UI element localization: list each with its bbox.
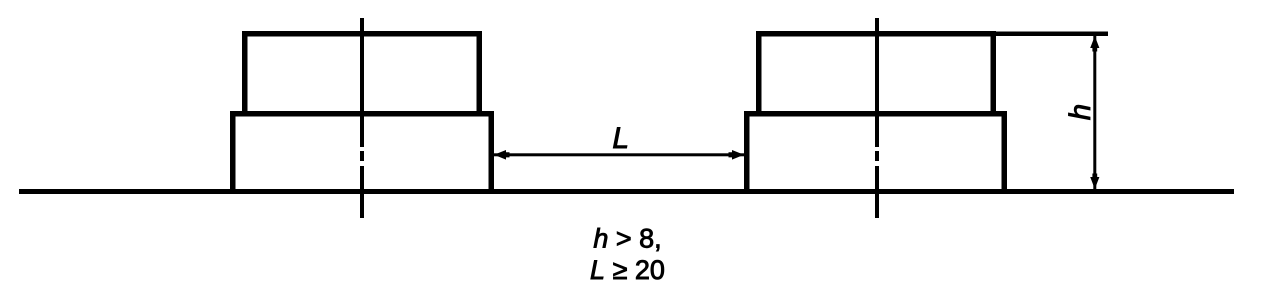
svg-text:h > 8,: h > 8, [593,224,661,254]
left component centerline [360,18,364,218]
dimension h bottom arrowhead [1090,174,1099,190]
dimension L line [494,153,744,156]
right component upper body [756,31,996,116]
dimension h line [1093,36,1096,189]
right component lower body [744,111,1007,194]
annotation line 2: L >= 20 [590,255,665,285]
dimension h label [1064,104,1097,120]
dimension h top arrowhead [1090,36,1099,52]
right component centerline [875,18,879,218]
svg-text:h: h [1064,104,1097,120]
dimension h extension line [996,32,1108,37]
mounting surface line [19,189,1234,194]
dimension L right arrowhead [729,150,745,160]
dimension L label [612,122,629,155]
annotation line 1: h > 8, [593,224,661,254]
svg-text:L: L [612,122,629,155]
svg-text:L ≥ 20: L ≥ 20 [590,255,665,285]
left component upper body [242,31,482,116]
dimension L left arrowhead [494,150,510,160]
left component lower body [230,111,494,194]
